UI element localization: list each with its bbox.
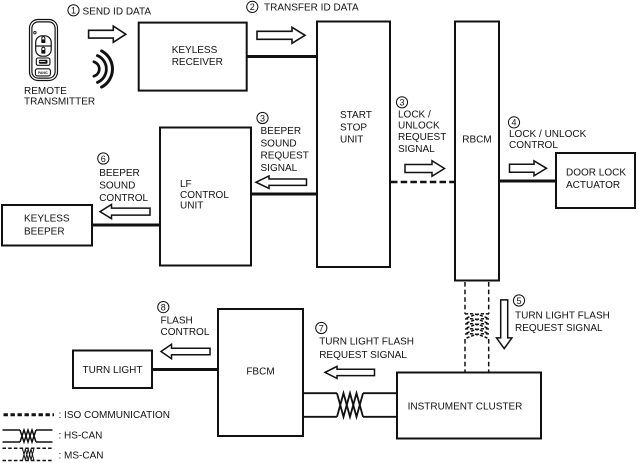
- svg-text:CONTROL: CONTROL: [180, 190, 229, 201]
- svg-text:UNIT: UNIT: [340, 135, 363, 146]
- svg-text:8: 8: [161, 302, 166, 312]
- svg-text:START: START: [340, 110, 372, 121]
- wire ms-can rbcm to instrument cluster (dashed pair with twist): [465, 282, 489, 372]
- svg-text:: ISO COMMUNICATION: : ISO COMMUNICATION: [59, 410, 170, 421]
- svg-text:BEEPER: BEEPER: [99, 168, 140, 179]
- svg-text:SIGNAL: SIGNAL: [398, 144, 435, 155]
- svg-text:FLASH: FLASH: [161, 315, 193, 326]
- svg-text:UNLOCK: UNLOCK: [398, 121, 440, 132]
- svg-text:LOCK /: LOCK /: [398, 110, 431, 121]
- svg-text:REQUEST SIGNAL: REQUEST SIGNAL: [515, 323, 603, 334]
- radio waves: [94, 51, 113, 87]
- node 6 circled: [98, 153, 109, 164]
- legend iso communication sample: [4, 413, 55, 416]
- block TURN LIGHT: [73, 351, 152, 389]
- svg-text:3: 3: [260, 113, 265, 123]
- block START STOP UNIT: [317, 22, 390, 268]
- svg-text:4: 4: [511, 118, 516, 128]
- legend hs-can sample: [3, 430, 53, 442]
- svg-text:SEND ID DATA: SEND ID DATA: [83, 6, 152, 17]
- svg-text:RBCM: RBCM: [462, 135, 491, 146]
- svg-text:DOOR LOCK: DOOR LOCK: [566, 168, 626, 179]
- node 4 circled: [508, 117, 519, 128]
- legend ms-can sample: [3, 448, 53, 460]
- svg-text:TRANSFER ID DATA: TRANSFER ID DATA: [264, 2, 359, 13]
- arrow 4 lock unlock control (right): [510, 161, 547, 176]
- svg-text:2: 2: [250, 2, 255, 12]
- label BEEPER SOUND REQUEST SIGNAL: [261, 126, 309, 174]
- svg-text:5: 5: [516, 296, 521, 306]
- svg-text:SIGNAL: SIGNAL: [261, 163, 298, 174]
- svg-text:BEEPER: BEEPER: [261, 126, 302, 137]
- svg-text:ACTUATOR: ACTUATOR: [566, 180, 620, 191]
- arrow 7 turn light flash request (left): [325, 366, 375, 378]
- label TURN LIGHT FLASH REQUEST SIGNAL (7): [319, 337, 414, 361]
- svg-text:LF: LF: [180, 179, 192, 190]
- wire turn light to fbcm: [152, 368, 218, 371]
- svg-text:SOUND: SOUND: [261, 139, 297, 150]
- svg-text:KEYLESS: KEYLESS: [172, 45, 218, 56]
- svg-text:REQUEST SIGNAL: REQUEST SIGNAL: [319, 350, 407, 361]
- svg-text:CONTROL: CONTROL: [509, 140, 558, 151]
- svg-text:FBCM: FBCM: [246, 367, 274, 378]
- wire rbcm to door lock actuator: [499, 180, 556, 183]
- label FLASH CONTROL: [161, 315, 210, 338]
- svg-text:CONTROL: CONTROL: [161, 327, 210, 338]
- wire keyless beeper to lf control unit: [92, 224, 160, 227]
- svg-text:KEYLESS: KEYLESS: [24, 214, 70, 225]
- svg-text:: HS-CAN: : HS-CAN: [59, 431, 103, 442]
- svg-text:CONTROL: CONTROL: [99, 193, 148, 204]
- svg-text:SOUND: SOUND: [99, 181, 135, 192]
- label BEEPER SOUND CONTROL: [99, 168, 148, 204]
- label LOCK / UNLOCK REQUEST SIGNAL: [398, 110, 446, 155]
- svg-text:INSTRUMENT CLUSTER: INSTRUMENT CLUSTER: [408, 402, 523, 413]
- block LF CONTROL UNIT: [160, 128, 251, 266]
- block KEYLESS RECEIVER: [139, 23, 247, 91]
- svg-text:3: 3: [399, 98, 404, 108]
- arrow 2 transfer id data: [257, 27, 305, 43]
- svg-text:BEEPER: BEEPER: [24, 226, 65, 237]
- remote transmitter fob: [30, 20, 58, 81]
- svg-text:LOCK / UNLOCK: LOCK / UNLOCK: [509, 129, 587, 140]
- arrow 5 turn light flash request (down): [497, 300, 512, 349]
- svg-text:TURN LIGHT FLASH: TURN LIGHT FLASH: [515, 311, 610, 322]
- wire iso communication start stop to rbcm (dashed): [391, 181, 454, 184]
- svg-text:TURN LIGHT: TURN LIGHT: [83, 365, 143, 376]
- label REMOTE TRANSMITTER: [24, 86, 95, 107]
- block FBCM: [218, 309, 303, 436]
- label LOCK / UNLOCK CONTROL: [509, 129, 587, 151]
- block KEYLESS BEEPER: [2, 205, 92, 246]
- svg-text:PANIC: PANIC: [38, 71, 48, 75]
- svg-text:6: 6: [101, 154, 106, 164]
- arrow 8 flash control (left): [161, 344, 210, 358]
- arrow 3 beeper sound request (left): [256, 176, 307, 188]
- block DOOR LOCK ACTUATOR: [556, 153, 635, 208]
- node 7 circled: [316, 322, 327, 333]
- wire keyless receiver to start stop unit: [247, 55, 317, 58]
- svg-text:7: 7: [319, 323, 324, 333]
- svg-text:1: 1: [71, 6, 76, 16]
- arrow 3 lock unlock request (right): [405, 161, 445, 177]
- arrow 6 beeper sound control (left): [100, 205, 150, 219]
- node 3 circled (beeper sound request): [257, 112, 268, 123]
- block INSTRUMENT CLUSTER: [397, 373, 541, 439]
- wire hs-can fbcm to instrument cluster (pair with twist): [304, 393, 397, 417]
- label TURN LIGHT FLASH REQUEST SIGNAL (5): [515, 311, 610, 335]
- node 3 circled (lock unlock request): [396, 97, 407, 108]
- arrow 1 send id data: [89, 26, 126, 42]
- svg-text:RECEIVER: RECEIVER: [172, 57, 223, 68]
- node 5 circled: [513, 295, 524, 306]
- svg-text:: MS-CAN: : MS-CAN: [59, 451, 104, 462]
- svg-text:UNIT: UNIT: [180, 201, 203, 212]
- block RBCM: [455, 22, 499, 281]
- svg-text:TURN LIGHT FLASH: TURN LIGHT FLASH: [319, 337, 414, 348]
- node 2 circled: [247, 1, 258, 12]
- svg-text:REQUEST: REQUEST: [398, 132, 446, 143]
- node 8 circled: [158, 302, 169, 313]
- svg-text:TRANSMITTER: TRANSMITTER: [24, 96, 95, 107]
- wire start stop unit to lf control unit: [252, 193, 317, 196]
- node 1 circled: [68, 5, 79, 16]
- svg-text:STOP: STOP: [340, 123, 367, 134]
- svg-text:REQUEST: REQUEST: [261, 151, 309, 162]
